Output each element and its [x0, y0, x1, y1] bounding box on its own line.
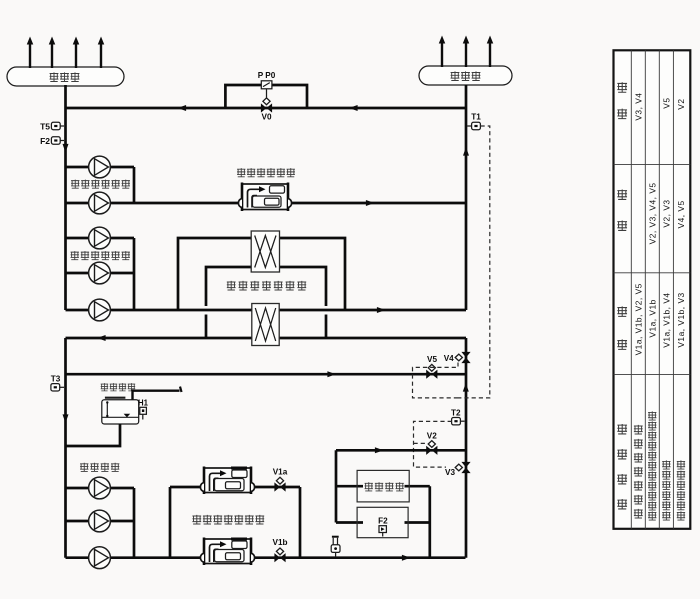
- table row line 2: [644, 50, 646, 529]
- table row line 4: [672, 50, 674, 529]
- svg-text:V3, V4: V3, V4: [633, 93, 643, 121]
- collector riser 2: [49, 37, 56, 69]
- arrow on HX chilled-water line: [377, 307, 386, 313]
- distributor riser 2: [463, 36, 470, 68]
- pipe: glycol pump branch 1: [66, 487, 135, 490]
- valve V4: [444, 352, 471, 363]
- pipe: pump collector 1: [133, 167, 136, 203]
- collector riser 3: [73, 37, 80, 69]
- pipe: main return header: [66, 107, 467, 110]
- pipe: bypass loop over return header: [225, 85, 307, 108]
- svg-text:T3: T3: [51, 375, 61, 384]
- table header 关闭: [617, 82, 627, 118]
- pump 基载冷冻水泵 1: [89, 156, 111, 178]
- svg-text:V2: V2: [676, 98, 686, 109]
- valve V2: [426, 431, 437, 455]
- pipe: ice coil outlet: [405, 485, 430, 488]
- svg-text:V1a, V1b, V4: V1a, V1b, V4: [661, 292, 671, 347]
- pipe: left glycol vertical: [64, 338, 67, 558]
- arrow on glycol header (left): [97, 335, 106, 341]
- sensor T5: [40, 122, 64, 132]
- label 双工况冷水机组: [192, 515, 264, 524]
- svg-text:V1a, V1b, V2, V5: V1a, V1b, V2, V5: [633, 283, 643, 355]
- svg-text:V1a: V1a: [273, 468, 288, 477]
- sensor T3: [51, 375, 64, 391]
- pipe: expansion tank vent: [133, 387, 182, 400]
- label 蓄冰盘管: [365, 482, 404, 491]
- dual-duty chiller 1: [200, 467, 254, 495]
- pipe: dual chiller right vertical: [299, 487, 302, 558]
- glycol pump 3: [89, 547, 111, 569]
- cell r4 关闭 V2: [676, 98, 686, 109]
- arrow on return header (left, mid): [349, 105, 358, 111]
- valve V0: [261, 98, 272, 122]
- dashed control: T1 to valve group: [458, 126, 490, 398]
- cell r1 工况 双工况主机制冰: [634, 425, 643, 518]
- sensor F2 (ice): [378, 516, 388, 536]
- label 基载冷水机组: [237, 168, 295, 177]
- label 供冷板式换热器: [227, 281, 306, 290]
- cell r2 工况 主机与蓄冰装置联合供冷: [648, 411, 656, 520]
- pipe: pump branch 3: [66, 237, 135, 240]
- pipe: inner loop right drop (crossing gap): [325, 315, 328, 339]
- pipe: HX chilled-water line: [66, 309, 467, 312]
- pipe: upper HX inner loop top: [206, 267, 326, 306]
- cell r3 工况 融冰单独供冷: [662, 460, 670, 520]
- expansion tank 膨胀水箱: [102, 398, 139, 424]
- glycol pump 1: [89, 477, 111, 499]
- pump 板换冷冻水泵 3: [89, 299, 111, 321]
- mode table frame: [614, 50, 691, 529]
- pipe: base chiller supply line: [66, 202, 467, 205]
- pipe: distributor drop / right supply riser: [465, 85, 468, 310]
- pump 板换冷冻水泵 2: [89, 262, 111, 284]
- valve V5: [426, 355, 437, 379]
- table column line 1: [614, 163, 691, 165]
- pipe: pump collector 2: [133, 238, 136, 310]
- cell r3 开启: [661, 292, 671, 347]
- svg-text:V2, V3, V4, V5: V2, V3, V4, V5: [647, 182, 657, 244]
- cell r4 调节 V4 V5: [676, 200, 686, 228]
- pipe: ice circuit top line (V2 line): [336, 449, 466, 452]
- arrow on V5 bypass: [327, 371, 336, 377]
- arrow on bottom header: [402, 555, 411, 561]
- level switch H1: [138, 398, 149, 419]
- plate heat exchanger upper 供冷板式换热器: [251, 231, 279, 272]
- pipe: expansion tank drain elbow: [66, 424, 121, 446]
- arrow on chiller supply: [366, 200, 375, 206]
- distributor riser 1: [439, 36, 446, 68]
- svg-text:P P0: P P0: [258, 71, 276, 80]
- pipe: dual chiller feed vertical: [169, 487, 172, 558]
- pipe: ice circuit left vertical: [335, 450, 338, 522]
- pipe: V5 bypass line: [66, 373, 466, 376]
- table header 开启: [617, 306, 627, 349]
- pipe: dual chiller top branch: [170, 486, 300, 489]
- cell r4 开启: [676, 292, 686, 347]
- table column line 2: [614, 272, 691, 274]
- svg-text:T5: T5: [40, 122, 50, 132]
- sensor T1: [467, 113, 481, 130]
- collector tank 集水器: [7, 67, 124, 86]
- distributor riser 3: [487, 36, 494, 68]
- controller P P0: [258, 71, 276, 98]
- pipe: glycol pump collector: [133, 488, 136, 558]
- pipe: collector drop + left chilled-water header: [64, 85, 67, 310]
- label 基载冷冻水泵: [71, 180, 130, 189]
- arrow up to distributor: [463, 147, 469, 156]
- pipe: ice coil inlet: [336, 485, 363, 488]
- pipe: F2 box outlet: [405, 521, 430, 524]
- arrow down on glycol vertical: [63, 414, 69, 423]
- dashed control box around V5/V4: [413, 363, 459, 398]
- cell r2 调节 V2-V5: [647, 182, 657, 244]
- pipe: right glycol riser: [465, 338, 468, 558]
- pipe: pump branch 1: [66, 166, 135, 169]
- svg-text:V1a, V1b, V3: V1a, V1b, V3: [676, 292, 686, 347]
- collector riser 1: [27, 37, 34, 69]
- valve V1b: [272, 538, 287, 562]
- valve V1a: [273, 468, 288, 492]
- svg-text:T1: T1: [471, 113, 481, 122]
- svg-text:F2: F2: [40, 136, 50, 146]
- pipe: glycol header to HX: [66, 337, 467, 340]
- table header 运行工况: [617, 424, 627, 509]
- glycol pump 2: [89, 510, 111, 532]
- cell r3 关闭 V5: [661, 97, 671, 108]
- plate heat exchanger lower: [252, 304, 279, 346]
- arrow up on right glycol riser: [463, 383, 469, 392]
- svg-text:V1b: V1b: [272, 538, 287, 547]
- svg-text:V4: V4: [444, 354, 454, 363]
- label 乙二醇泵: [80, 463, 119, 472]
- svg-text:T2: T2: [451, 408, 461, 417]
- sensor T2: [451, 408, 464, 425]
- pump 板换冷冻水泵 1: [89, 227, 111, 249]
- pipe: ice circuit right vertical: [428, 486, 431, 558]
- pipe: F2 box inlet: [336, 521, 363, 524]
- dashed control: T2 to V2 and V3: [414, 421, 452, 467]
- label 膨胀水箱: [101, 383, 135, 391]
- label 板换冷冻水泵: [71, 251, 130, 260]
- svg-text:V1a, V1b: V1a, V1b: [647, 299, 657, 337]
- cell r2 开启: [647, 299, 657, 337]
- pipe: upper HX outer loop: [178, 238, 345, 310]
- svg-text:V5: V5: [661, 97, 671, 108]
- sensor F2: [40, 136, 64, 146]
- svg-text:V4, V5: V4, V5: [676, 200, 686, 228]
- svg-text:V0: V0: [261, 113, 271, 122]
- table row line 1: [630, 50, 632, 529]
- svg-text:V2: V2: [427, 431, 437, 440]
- table row line 3: [658, 50, 660, 529]
- table header 调节: [617, 189, 627, 230]
- instrument on bottom header (expansion relief): [331, 536, 340, 557]
- svg-text:V3: V3: [445, 468, 455, 477]
- cell r1 开启: [633, 283, 643, 355]
- arrow on ice top line: [375, 447, 384, 453]
- flow meter box: [357, 507, 408, 537]
- distributor tank 分水器: [419, 66, 512, 85]
- collector riser 4: [98, 37, 105, 69]
- table column line 3: [614, 373, 691, 375]
- pipe: glycol bottom header: [66, 556, 466, 559]
- arrow down on left header: [63, 144, 69, 153]
- pump 基载冷冻水泵 2: [89, 192, 111, 214]
- pipe: pump branch 4: [66, 272, 135, 275]
- cell r1 关闭 V3 V4: [633, 93, 643, 121]
- svg-text:V2, V3: V2, V3: [661, 199, 671, 227]
- cell r4 工况 主机单独供冷: [677, 460, 685, 520]
- cell r3 调节 V2 V3: [661, 199, 671, 227]
- valve V3: [445, 462, 471, 477]
- svg-text:V5: V5: [427, 355, 437, 364]
- svg-text:F2: F2: [378, 516, 388, 525]
- arrow on return header (left, near collector): [178, 105, 187, 111]
- ice coil box 蓄冰盘管: [357, 470, 409, 502]
- svg-text:H1: H1: [138, 398, 149, 407]
- pipe: inner loop left drop (crossing gap): [205, 315, 208, 339]
- chiller unit 基载冷水机组: [238, 183, 291, 212]
- dual-duty chiller 2: [200, 538, 254, 566]
- pipe: glycol pump branch 2: [66, 520, 135, 523]
